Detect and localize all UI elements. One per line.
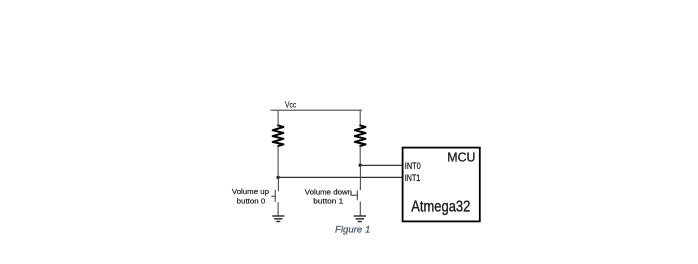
wire Vcc rail: [271, 109, 362, 111]
wire junction B to button S1: [359, 165, 361, 190]
label Volume up button 0: [232, 189, 269, 206]
resistor R1: [273, 125, 284, 146]
push button S0 (Volume up): [271, 190, 275, 202]
svg-text:Figure 1: Figure 1: [335, 225, 370, 235]
svg-text:button 0: button 0: [237, 199, 266, 206]
node junction B: [359, 164, 362, 167]
svg-text:Volume down: Volume down: [305, 190, 352, 197]
svg-text:button 1: button 1: [313, 199, 343, 206]
wire left drop from Vcc rail: [277, 110, 279, 126]
resistor R2: [355, 125, 366, 146]
ground GND (right): [354, 216, 366, 222]
svg-text:Volume up: Volume up: [232, 189, 269, 196]
label Volume down button 1: [305, 190, 352, 206]
node junction A: [276, 176, 279, 179]
wire R1 to junction A: [277, 146, 279, 178]
wire button S1 to ground: [359, 202, 361, 217]
wire right drop from Vcc rail: [359, 110, 361, 126]
svg-text:MCU: MCU: [447, 150, 475, 165]
svg-text:INT0: INT0: [405, 161, 421, 171]
wire net INT1 (junction A to MCU): [278, 176, 403, 178]
wire R2 to junction B: [359, 146, 361, 166]
wire net INT0 (junction B to MCU): [360, 164, 403, 166]
push button S1 (Volume down): [351, 191, 357, 201]
svg-text:INT1: INT1: [405, 173, 421, 183]
svg-text:Vcc: Vcc: [285, 100, 296, 109]
MCU U1 box: [403, 148, 480, 222]
ground GND (left): [272, 216, 284, 222]
wire button S0 to ground: [277, 202, 279, 216]
svg-text:Atmega32: Atmega32: [411, 198, 470, 215]
wire junction A to button S0: [277, 177, 279, 191]
